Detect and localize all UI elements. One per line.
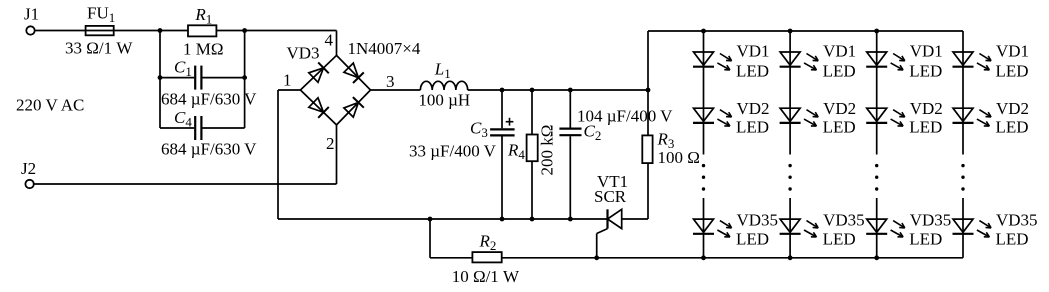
terminal J2	[25, 180, 33, 188]
capacitor C4	[160, 127, 194, 129]
svg-text:VD1: VD1	[996, 42, 1029, 61]
svg-text:VD3: VD3	[287, 44, 320, 63]
wire node 1 down to bottom rail	[277, 90, 279, 219]
bridge diode 4-3	[344, 63, 359, 78]
svg-text:10 Ω/1 W: 10 Ω/1 W	[452, 267, 520, 286]
bridge diode 1-4	[309, 68, 324, 82]
resistor R3	[642, 135, 652, 163]
LED VD1 col 2	[780, 52, 800, 65]
resistor R4	[527, 135, 538, 162]
svg-text:VD35: VD35	[996, 211, 1038, 230]
LED VD35 col 4	[953, 219, 973, 232]
wire bridge node 3 to L1	[371, 89, 421, 91]
junction C3 top	[500, 88, 505, 93]
bottom rail to SCR	[278, 218, 608, 220]
svg-text:LED: LED	[996, 118, 1029, 137]
LED VD2 col 1	[694, 108, 714, 121]
svg-text:100 Ω: 100 Ω	[658, 148, 700, 167]
svg-text:1: 1	[283, 71, 292, 90]
wire L1 to right vertical	[468, 89, 648, 91]
wire up to bridge node 2	[336, 125, 338, 184]
svg-text:200 kΩ: 200 kΩ	[538, 125, 557, 176]
svg-text:SCR: SCR	[594, 187, 627, 206]
junction R4 bottom	[530, 217, 535, 222]
junction right vertical	[646, 88, 651, 93]
junction top rail col 2	[788, 29, 793, 34]
svg-text:VD2: VD2	[823, 99, 856, 118]
svg-text:1N4007×4: 1N4007×4	[348, 39, 421, 58]
svg-text:220 V AC: 220 V AC	[16, 96, 84, 115]
svg-text:J2: J2	[21, 159, 36, 178]
junction top rail col 1	[701, 29, 706, 34]
svg-text:LED: LED	[736, 118, 769, 137]
capacitor C1	[160, 77, 194, 79]
wire col 1 upper	[703, 31, 705, 155]
svg-text:VD35: VD35	[823, 211, 865, 230]
LED VD1 col 4	[953, 52, 973, 65]
svg-text:LED: LED	[823, 118, 856, 137]
fuse FU1	[86, 26, 114, 35]
svg-text:VD35: VD35	[737, 211, 779, 230]
wire LED rail down to R3	[647, 31, 649, 135]
wire bridge node 1 left	[278, 89, 300, 91]
LED VD35 col 2	[780, 219, 800, 232]
wire R3 to SCR rail	[647, 163, 649, 219]
svg-text:VD1: VD1	[823, 42, 856, 61]
ellipsis col 4	[961, 164, 964, 167]
svg-text:104 µF/400 V: 104 µF/400 V	[577, 107, 673, 126]
LED VD2 col 2	[780, 108, 800, 121]
wire col 3 lower	[876, 198, 878, 258]
junction C2 top	[568, 88, 573, 93]
plus sign of C3	[506, 121, 514, 123]
thyristor VT1 SCR	[606, 209, 608, 228]
inductor L1	[420, 81, 467, 90]
wire R1 to bridge	[216, 30, 336, 32]
svg-text:LED: LED	[909, 230, 942, 249]
junction low rail col 1	[701, 255, 706, 260]
wire J2 to bridge node 2	[34, 183, 337, 185]
wire col 1 lower	[703, 198, 705, 258]
junction R4 top	[530, 88, 535, 93]
resistor R2	[472, 252, 501, 262]
junction low rail col 3	[874, 255, 879, 260]
svg-text:LED: LED	[909, 118, 942, 137]
svg-text:VD2: VD2	[996, 99, 1029, 118]
ellipsis col 1	[702, 164, 705, 167]
svg-text:684 µF/630 V: 684 µF/630 V	[161, 90, 257, 109]
junction top rail col 3	[874, 29, 879, 34]
ellipsis col 3	[875, 164, 878, 167]
junction R2 branch	[428, 217, 433, 222]
svg-text:LED: LED	[823, 62, 856, 81]
svg-text:1 MΩ: 1 MΩ	[183, 40, 224, 59]
bridge diode 2-3	[344, 102, 359, 117]
junction top-right of R1 block	[242, 28, 247, 33]
svg-text:LED: LED	[736, 62, 769, 81]
svg-text:33 µF/400 V: 33 µF/400 V	[409, 142, 497, 161]
wire col 4 upper	[962, 31, 964, 155]
svg-text:LED: LED	[909, 62, 942, 81]
svg-text:LED: LED	[823, 230, 856, 249]
terminal J1	[26, 26, 34, 34]
svg-text:3: 3	[386, 72, 395, 91]
svg-text:VD2: VD2	[910, 99, 943, 118]
svg-text:LED: LED	[736, 230, 769, 249]
wire down to R2	[429, 219, 431, 258]
wire col 3 upper	[876, 31, 878, 155]
junction C2 bottom	[568, 217, 573, 222]
svg-text:33 Ω/1 W: 33 Ω/1 W	[65, 39, 133, 58]
wire col 2 upper	[789, 31, 791, 155]
wire col 4 lower	[962, 198, 964, 258]
LED VD35 col 3	[867, 219, 887, 232]
wire col 2 lower	[789, 198, 791, 258]
capacitor C2	[569, 90, 571, 128]
svg-text:100 µH: 100 µH	[418, 91, 470, 110]
junction top-left of R1 block	[158, 28, 163, 33]
wire right side of RC block	[244, 31, 246, 129]
svg-text:VD1: VD1	[910, 42, 943, 61]
junction low rail col 2	[788, 255, 793, 260]
junction gate on low rail	[594, 255, 599, 260]
svg-text:VD1: VD1	[737, 42, 770, 61]
bridge diode 1-2	[309, 98, 324, 113]
svg-text:4: 4	[325, 31, 334, 50]
junction C1 right	[242, 75, 247, 80]
svg-text:J1: J1	[24, 5, 39, 24]
LED VD2 col 4	[953, 108, 973, 121]
ellipsis col 2	[788, 164, 791, 167]
svg-text:LED: LED	[996, 230, 1029, 249]
wire to R4	[531, 90, 533, 135]
gate of VT1	[597, 229, 608, 234]
capacitor C3	[501, 90, 503, 128]
resistor R1	[188, 25, 216, 36]
wire FU1 to R1	[114, 30, 188, 32]
svg-text:LED: LED	[996, 62, 1029, 81]
LED VD35 col 1	[694, 219, 714, 232]
svg-text:VD2: VD2	[737, 99, 770, 118]
LED top rail	[648, 30, 963, 32]
junction C1 left	[158, 75, 163, 80]
wire top rail to bridge node 4	[336, 31, 338, 56]
wire left side of RC block	[159, 31, 161, 129]
low rail R2 to LED columns	[502, 257, 963, 259]
svg-text:2: 2	[326, 134, 335, 153]
svg-text:VD35: VD35	[910, 211, 952, 230]
svg-text:684 µF/630 V: 684 µF/630 V	[161, 140, 257, 159]
LED VD1 col 1	[694, 52, 714, 65]
LED VD1 col 3	[867, 52, 887, 65]
wire J1 to FU1	[35, 30, 86, 32]
bridge rectifier VD3 frame	[300, 55, 370, 125]
LED VD2 col 3	[867, 108, 887, 121]
junction C3 bottom	[500, 217, 505, 222]
